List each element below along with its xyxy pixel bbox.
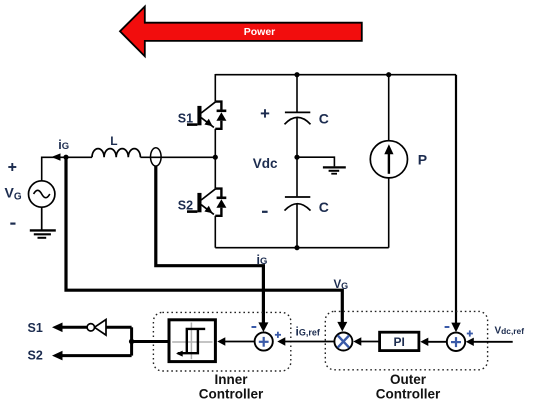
node cap midpoint <box>294 155 299 160</box>
wire cap branch middle <box>296 118 298 196</box>
svg-text:C: C <box>319 110 329 126</box>
minus sign (inner sum) <box>252 326 257 328</box>
NOT gate <box>94 320 106 336</box>
svg-text:S1: S1 <box>178 111 193 125</box>
plus sign (inner sum) <box>275 332 281 338</box>
svg-text:VG: VG <box>334 279 349 291</box>
multiplier node X <box>334 333 352 351</box>
svg-text:C: C <box>319 199 329 215</box>
svg-text:Inner: Inner <box>214 372 248 387</box>
svg-text:PI: PI <box>394 335 405 349</box>
plus sign (outer sum) <box>467 330 473 336</box>
wire inner sum to relay <box>223 341 255 343</box>
svg-text:S1: S1 <box>28 321 43 335</box>
wire PI to X <box>359 341 380 343</box>
wire iG,ref into inner sum <box>283 341 334 343</box>
wire relay output <box>132 340 169 343</box>
minus sign Vdc <box>262 211 268 213</box>
plus sign Vdc <box>261 109 269 117</box>
minus sign (outer sum) <box>445 326 450 328</box>
svg-text:Power: Power <box>244 26 276 38</box>
transistor S1 <box>187 102 226 129</box>
wire leg emitter S2 <box>214 216 216 248</box>
wire cap branch bottom <box>296 204 298 248</box>
wire inductor to leg <box>140 156 215 158</box>
wire bottom DC rail <box>215 247 388 249</box>
transistor S2 <box>187 189 226 216</box>
power flow arrow <box>120 7 362 57</box>
node gate split <box>129 339 134 344</box>
wire VG to top corner <box>42 157 92 181</box>
svg-text:L: L <box>110 134 117 148</box>
capacitor C (upper) <box>285 112 311 124</box>
svg-text:Vdc: Vdc <box>253 156 278 171</box>
svg-text:Controller: Controller <box>199 386 264 401</box>
svg-text:S2: S2 <box>28 349 43 363</box>
minus sign VG <box>10 223 15 225</box>
node top rail / P branch <box>386 72 391 77</box>
svg-text:Controller: Controller <box>376 386 441 401</box>
node VG sense tap <box>63 155 68 160</box>
svg-text:iG: iG <box>257 253 268 267</box>
wire VG sense path <box>66 158 342 324</box>
svg-text:Vdc,ref: Vdc,ref <box>495 326 525 337</box>
PI block <box>380 332 419 350</box>
inductor L <box>92 149 140 158</box>
outer controller dashed box <box>325 311 487 369</box>
svg-text:iG,ref: iG,ref <box>296 325 321 339</box>
current source P <box>370 141 407 178</box>
wire outer sum to PI <box>426 341 447 343</box>
svg-text:Outer: Outer <box>390 372 427 387</box>
wire top DC rail <box>215 74 456 76</box>
wire to NOT gate <box>106 326 132 329</box>
node phase midpoint <box>213 155 218 160</box>
wire iG sense path <box>156 166 264 323</box>
current sensor <box>151 148 162 166</box>
ground (DC midpoint) <box>323 167 346 173</box>
inner controller dashed box <box>153 312 290 371</box>
wire capacitor branch top <box>296 75 298 112</box>
svg-text:S2: S2 <box>178 198 193 212</box>
iG current arrow <box>51 153 60 160</box>
AC source VG <box>29 181 55 207</box>
wire P branch top <box>388 75 390 141</box>
wire Vdc sense (right vertical) <box>455 75 457 324</box>
capacitor C (lower) <box>285 197 311 211</box>
svg-text:iG: iG <box>58 138 69 152</box>
summing node (inner) <box>255 332 273 350</box>
wire leg collector S1 <box>214 74 216 102</box>
node top rail / cap branch <box>294 72 299 77</box>
wire gate split vertical <box>130 327 133 355</box>
wire P branch bottom <box>388 178 390 248</box>
wire S2 gate output <box>62 354 132 357</box>
svg-text:P: P <box>418 152 427 168</box>
wire S1 gate output <box>60 326 87 329</box>
wire Vdc,ref input <box>472 341 513 343</box>
wire midpoint to ground <box>297 157 334 166</box>
relay (hysteresis) block <box>169 320 215 362</box>
plus sign VG <box>8 163 16 171</box>
node bottom rail / cap branch <box>294 245 299 250</box>
summing node (outer) <box>447 333 465 351</box>
ground (AC source) <box>41 207 43 229</box>
wire leg midpoint <box>214 129 216 189</box>
